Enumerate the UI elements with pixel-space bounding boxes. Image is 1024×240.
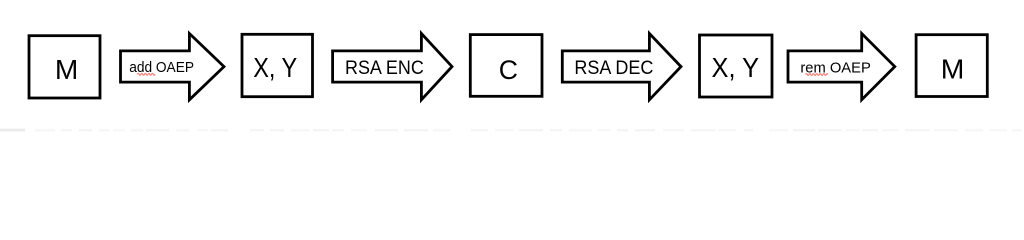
arrow RSA DEC bbox=[562, 34, 681, 100]
svg-text:C: C bbox=[499, 55, 518, 85]
arrow add OAEP bbox=[121, 34, 225, 100]
svg-text:X, Y: X, Y bbox=[712, 52, 760, 83]
arrow RSA ENC bbox=[333, 34, 452, 100]
arrow rem OAEP bbox=[788, 34, 895, 100]
box M (plaintext input) bbox=[29, 36, 100, 98]
svg-text:RSA ENC: RSA ENC bbox=[345, 58, 424, 79]
svg-text:M: M bbox=[941, 53, 965, 84]
spellcheck squiggle under rem bbox=[806, 74, 828, 76]
svg-text:M: M bbox=[55, 54, 78, 85]
box M (recovered plaintext) bbox=[916, 35, 987, 97]
box X, Y (before OAEP removal) bbox=[700, 35, 773, 97]
box C (ciphertext) bbox=[470, 35, 542, 97]
faint crop artifact band at bottom bbox=[0, 129, 1022, 132]
svg-text:X, Y: X, Y bbox=[253, 52, 297, 83]
box X, Y (after OAEP) bbox=[242, 34, 313, 96]
svg-text:RSA DEC: RSA DEC bbox=[574, 58, 653, 79]
spellcheck squiggle under add bbox=[137, 73, 155, 75]
